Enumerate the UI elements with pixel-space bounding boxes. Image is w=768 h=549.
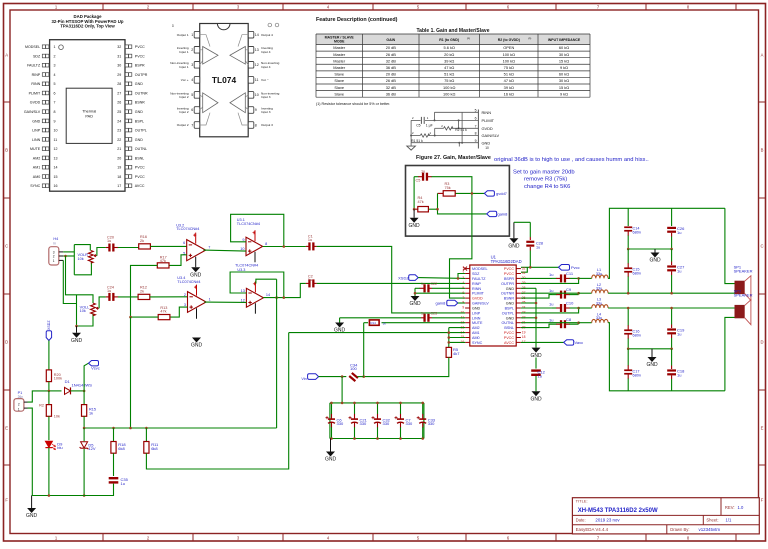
wire U3.1 output to C1 bbox=[263, 246, 306, 248]
net flag Vsvc bbox=[84, 363, 88, 391]
wire H4 pin2 down to VOLL bbox=[66, 256, 77, 295]
svg-text:GND: GND bbox=[71, 338, 83, 344]
svg-text:28: 28 bbox=[117, 82, 121, 86]
wire PLIMIT to GVDD (figure) bbox=[458, 120, 460, 128]
svg-text:26 dB: 26 dB bbox=[386, 78, 397, 83]
svg-text:Set to gain master 20db: Set to gain master 20db bbox=[513, 170, 575, 176]
svg-text:24: 24 bbox=[117, 119, 121, 123]
svg-text:23: 23 bbox=[117, 129, 121, 133]
svg-text:10k: 10k bbox=[80, 309, 86, 313]
svg-text:6k8: 6k8 bbox=[118, 446, 125, 451]
svg-text:XSDZ: XSDZ bbox=[398, 276, 409, 281]
svg-text:330: 330 bbox=[360, 421, 367, 426]
svg-text:BSNR: BSNR bbox=[135, 101, 145, 105]
wire C5 right to GVDD node bbox=[432, 177, 472, 236]
capacitor C28 bbox=[514, 221, 530, 223]
svg-text:14: 14 bbox=[255, 33, 259, 37]
bootstrap cap C10 bbox=[521, 307, 552, 309]
no-connect MODSEL bbox=[463, 267, 467, 271]
svg-text:Slave: Slave bbox=[334, 91, 344, 96]
svg-text:FAULTZ: FAULTZ bbox=[27, 64, 41, 68]
wire R18 to C35 bbox=[113, 453, 115, 476]
svg-text:GAIN/SLV: GAIN/SLV bbox=[472, 302, 489, 306]
main ground bbox=[27, 508, 36, 513]
svg-text:20 dB: 20 dB bbox=[386, 45, 397, 50]
svg-text:PLIMIT: PLIMIT bbox=[472, 292, 485, 296]
svg-text:12: 12 bbox=[255, 63, 259, 67]
resistor R2 (figure) bbox=[435, 127, 444, 129]
svg-text:gain8: gain8 bbox=[498, 212, 509, 217]
wire R20 to 26V node bbox=[48, 382, 50, 391]
svg-text:LINN: LINN bbox=[472, 316, 481, 320]
svg-text:E: E bbox=[5, 426, 8, 431]
svg-text:GND: GND bbox=[32, 119, 40, 123]
diode D1 1N4148WS bbox=[65, 387, 71, 394]
svg-text:PLIMIT: PLIMIT bbox=[29, 92, 41, 96]
svg-text:Drawn By:: Drawn By: bbox=[670, 527, 689, 532]
ground below C12 bbox=[532, 391, 541, 396]
svg-text:GVDD: GVDD bbox=[30, 101, 41, 105]
svg-text:36 dB: 36 dB bbox=[386, 91, 397, 96]
svg-text:2019 23 nov: 2019 23 nov bbox=[595, 518, 620, 523]
svg-text:C11: C11 bbox=[566, 271, 574, 276]
filter cap C14 680n bbox=[627, 208, 629, 226]
svg-text:Sheet:: Sheet: bbox=[706, 518, 718, 523]
svg-text:13: 13 bbox=[54, 156, 58, 160]
svg-text:XH-M543 TPA3116D2 2x50W: XH-M543 TPA3116D2 2x50W bbox=[578, 508, 658, 514]
svg-text:30 kΩ: 30 kΩ bbox=[559, 52, 569, 57]
svg-text:GND: GND bbox=[135, 82, 143, 86]
capacitor C1 bbox=[306, 245, 310, 247]
svg-text:Master: Master bbox=[333, 58, 346, 63]
net flag gain8 (box) bbox=[487, 211, 497, 216]
svg-text:BSNL: BSNL bbox=[504, 326, 514, 330]
svg-text:F: F bbox=[5, 498, 8, 503]
svg-text:LINP: LINP bbox=[32, 129, 41, 133]
svg-text:47 kΩ: 47 kΩ bbox=[444, 65, 454, 70]
ground LINN bbox=[335, 323, 344, 328]
svg-text:BSPR: BSPR bbox=[504, 277, 514, 281]
svg-text:Input 1: Input 1 bbox=[179, 50, 189, 54]
svg-text:GND: GND bbox=[409, 301, 421, 307]
capacitor C5 bbox=[414, 176, 418, 178]
svg-text:2: 2 bbox=[184, 293, 186, 297]
svg-text:Master: Master bbox=[333, 45, 346, 50]
svg-text:20: 20 bbox=[117, 156, 121, 160]
svg-text:51 kΩ: 51 kΩ bbox=[504, 72, 514, 77]
svg-text:Output 2: Output 2 bbox=[177, 123, 189, 127]
svg-text:Input 3: Input 3 bbox=[261, 95, 271, 99]
svg-text:Slave: Slave bbox=[334, 78, 344, 83]
svg-text:1u: 1u bbox=[549, 288, 553, 293]
svg-text:10: 10 bbox=[54, 129, 58, 133]
svg-text:AM2: AM2 bbox=[33, 156, 40, 160]
potentiometer VOLL 10k bbox=[76, 295, 78, 326]
svg-text:7: 7 bbox=[462, 296, 464, 300]
svg-text:LINP: LINP bbox=[472, 311, 481, 315]
capacitor C23 bbox=[340, 317, 421, 319]
svg-text:SPEAKER: SPEAKER bbox=[734, 292, 753, 297]
capacitor C35 1u bbox=[109, 477, 119, 479]
ground triangle (figure) bbox=[410, 143, 412, 146]
svg-text:Vᴄᴄ +: Vᴄᴄ + bbox=[181, 78, 189, 82]
filter cap C15 680n bbox=[627, 249, 629, 264]
wire R3-R4 junction bbox=[438, 193, 487, 214]
svg-text:Feature Description (continued: Feature Description (continued) bbox=[316, 17, 398, 23]
svg-text:1u: 1u bbox=[538, 373, 542, 378]
svg-text:TLC074CN#4: TLC074CN#4 bbox=[235, 264, 258, 268]
svg-text:Output 3: Output 3 bbox=[261, 123, 273, 127]
svg-text:E: E bbox=[761, 426, 764, 431]
svg-text:OUTPL: OUTPL bbox=[502, 311, 514, 315]
svg-text:33u: 33u bbox=[596, 316, 602, 320]
svg-text:Slave: Slave bbox=[334, 85, 344, 90]
resistor R20 100k bbox=[46, 370, 51, 382]
svg-text:PVCC: PVCC bbox=[504, 336, 515, 340]
svg-text:C9: C9 bbox=[566, 287, 572, 292]
svg-text:3: 3 bbox=[184, 303, 186, 307]
svg-text:2: 2 bbox=[53, 254, 55, 258]
resistor R18 6k8 bbox=[113, 428, 115, 442]
svg-text:20 kΩ: 20 kΩ bbox=[444, 52, 454, 57]
svg-text:(1) Resistor tolerance shoul: (1) Resistor tolerance should be 5% or b… bbox=[316, 102, 390, 106]
capacitor C24 bbox=[106, 296, 110, 298]
svg-text:GND: GND bbox=[506, 316, 515, 320]
svg-text:C23: C23 bbox=[431, 312, 438, 316]
wire PLIMIT bbox=[415, 292, 465, 294]
svg-text:4: 4 bbox=[191, 78, 193, 82]
resistor R16 2k bbox=[139, 244, 151, 249]
svg-text:AM1: AM1 bbox=[472, 331, 480, 335]
wire PVCC pins bbox=[521, 266, 559, 268]
svg-text:OPEN: OPEN bbox=[503, 45, 514, 50]
svg-text:2: 2 bbox=[18, 402, 20, 406]
bias rail horizontal bbox=[84, 427, 277, 429]
svg-text:C22: C22 bbox=[431, 282, 438, 286]
svg-text:PVCC: PVCC bbox=[135, 54, 145, 58]
svg-text:TLC074CN#4: TLC074CN#4 bbox=[177, 280, 200, 284]
wire speaker1 plus from rail bbox=[725, 208, 735, 283]
svg-text:12: 12 bbox=[54, 147, 58, 151]
svg-text:C5: C5 bbox=[416, 124, 420, 128]
wire H4 pin2 bbox=[63, 255, 74, 257]
svg-text:Output 4: Output 4 bbox=[261, 33, 273, 37]
svg-text:1u: 1u bbox=[677, 332, 681, 337]
wire U3.3 output bbox=[263, 283, 306, 297]
capacitor C2 bbox=[306, 282, 310, 284]
svg-text:1: 1 bbox=[53, 259, 55, 263]
capacitor bank rails bbox=[330, 402, 424, 404]
svg-text:31: 31 bbox=[522, 271, 526, 275]
svg-text:PVCC: PVCC bbox=[504, 267, 515, 271]
svg-text:v12345vtm: v12345vtm bbox=[699, 527, 721, 532]
svg-text:33u: 33u bbox=[596, 272, 602, 276]
svg-text:AM0: AM0 bbox=[472, 336, 480, 340]
svg-text:Vin: Vin bbox=[301, 377, 306, 381]
capacitor C20 bbox=[106, 247, 110, 249]
svg-text:8: 8 bbox=[475, 132, 477, 136]
wire GND row (figure) bbox=[411, 142, 478, 144]
svg-text:75k: 75k bbox=[445, 186, 451, 190]
svg-text:1u: 1u bbox=[421, 312, 425, 316]
wire H4 pin3 to VOLR bbox=[63, 251, 74, 253]
svg-text:15 kΩ: 15 kΩ bbox=[559, 85, 569, 90]
svg-text:6: 6 bbox=[54, 92, 56, 96]
svg-text:11: 11 bbox=[255, 78, 259, 82]
wire R16 to U3.2 bbox=[150, 245, 186, 247]
svg-text:R2: R2 bbox=[39, 404, 44, 408]
wire AM bias rail bbox=[448, 328, 450, 348]
svg-text:3: 3 bbox=[54, 64, 56, 68]
svg-text:680n: 680n bbox=[633, 272, 641, 276]
wire OUTNR to L2 bbox=[521, 292, 579, 294]
wire H4 pin1 down bbox=[63, 260, 76, 303]
svg-text:6: 6 bbox=[191, 108, 193, 112]
svg-text:9: 9 bbox=[54, 119, 56, 123]
svg-text:Table 1. Gain and Master/Slave: Table 1. Gain and Master/Slave bbox=[417, 28, 490, 34]
svg-text:1.0: 1.0 bbox=[738, 505, 744, 510]
ground top filter bbox=[651, 253, 660, 258]
svg-text:Date:: Date: bbox=[576, 518, 586, 523]
wire U3.2 out to U3.1 bbox=[203, 250, 246, 251]
wire 26V node to D1 bbox=[49, 390, 62, 392]
svg-text:Vavc: Vavc bbox=[575, 340, 584, 345]
svg-text:2: 2 bbox=[54, 54, 56, 58]
svg-text:PVCC: PVCC bbox=[135, 166, 145, 170]
svg-text:20 dB: 20 dB bbox=[386, 72, 397, 77]
svg-text:47k: 47k bbox=[160, 310, 166, 314]
svg-text:MUTE: MUTE bbox=[472, 321, 483, 325]
svg-text:25: 25 bbox=[117, 110, 121, 114]
wire D9 to ground rail bbox=[48, 448, 50, 496]
svg-text:14: 14 bbox=[266, 293, 270, 297]
svg-text:original 36dB is to high to us: original 36dB is to high to use , and ca… bbox=[494, 157, 649, 163]
svg-text:100 kΩ: 100 kΩ bbox=[503, 52, 516, 57]
svg-text:R2 (to GVDD): R2 (to GVDD) bbox=[498, 38, 520, 42]
capacitor C22 bbox=[415, 287, 420, 289]
main ground rail bbox=[48, 494, 51, 497]
svg-text:2: 2 bbox=[191, 48, 193, 52]
svg-text:330: 330 bbox=[406, 421, 413, 426]
svg-text:680n: 680n bbox=[633, 231, 641, 235]
svg-text:2k: 2k bbox=[140, 239, 144, 243]
svg-text:1u: 1u bbox=[121, 481, 125, 486]
svg-text:11: 11 bbox=[54, 138, 58, 142]
wire RINP from C2 bbox=[317, 282, 466, 284]
svg-text:680n: 680n bbox=[633, 334, 641, 338]
svg-text:C: C bbox=[760, 244, 763, 249]
svg-text:100 kΩ: 100 kΩ bbox=[503, 58, 516, 63]
svg-text:330: 330 bbox=[383, 421, 390, 426]
svg-text:330: 330 bbox=[428, 421, 435, 426]
bias rail right branch bbox=[276, 279, 278, 428]
svg-text:MUTE: MUTE bbox=[30, 147, 41, 151]
svg-text:PAD: PAD bbox=[85, 114, 93, 118]
svg-text:47k: 47k bbox=[160, 259, 166, 263]
wire OUTNL to L4 bbox=[521, 322, 579, 324]
wire SYNC bbox=[449, 341, 465, 343]
resistor R14 mute bbox=[364, 322, 368, 324]
U3.3 inner loop bbox=[256, 279, 277, 283]
ground (box) bbox=[413, 209, 415, 218]
svg-text:47k: 47k bbox=[418, 200, 424, 204]
svg-text:BSPL: BSPL bbox=[505, 307, 514, 311]
svg-text:GND: GND bbox=[191, 343, 203, 349]
wire R11 bottom to AM2 rail bbox=[146, 333, 288, 469]
svg-text:2k: 2k bbox=[140, 289, 144, 293]
svg-text:8: 8 bbox=[255, 123, 257, 127]
svg-text:26v: 26v bbox=[18, 395, 24, 399]
resistor R15 1k bbox=[82, 405, 87, 417]
svg-text:OUTPL: OUTPL bbox=[135, 129, 147, 133]
svg-text:Master: Master bbox=[333, 65, 346, 70]
svg-text:GND: GND bbox=[530, 397, 542, 403]
svg-text:33u: 33u bbox=[596, 301, 602, 305]
net flag Pvcc bbox=[559, 265, 570, 271]
svg-text:R1 (to GND): R1 (to GND) bbox=[439, 38, 459, 42]
svg-text:TPA3116D2DAD: TPA3116D2DAD bbox=[491, 259, 522, 264]
svg-text:100 kΩ: 100 kΩ bbox=[443, 85, 456, 90]
svg-text:OUTNL: OUTNL bbox=[502, 321, 515, 325]
svg-text:Output 1: Output 1 bbox=[177, 33, 189, 37]
svg-text:7: 7 bbox=[54, 101, 56, 105]
wire Vin to C34 bbox=[319, 376, 347, 378]
wire gvdd net to U1 bbox=[450, 236, 472, 298]
svg-text:18: 18 bbox=[522, 335, 526, 339]
wire R12 to U3.4 bbox=[150, 296, 188, 298]
svg-text:26 dB: 26 dB bbox=[386, 52, 397, 57]
svg-text:19: 19 bbox=[117, 166, 121, 170]
wire AM1 from bias divider bbox=[289, 332, 465, 334]
svg-text:SPEAKER: SPEAKER bbox=[734, 269, 753, 274]
svg-text:1k: 1k bbox=[383, 321, 387, 325]
svg-text:C8: C8 bbox=[566, 317, 572, 322]
ground cap bank bbox=[330, 439, 332, 452]
svg-text:1u: 1u bbox=[421, 170, 425, 174]
feedback resistor R13 47k bbox=[170, 307, 188, 317]
svg-text:1u: 1u bbox=[549, 272, 553, 277]
svg-text:BSPL: BSPL bbox=[135, 119, 144, 123]
svg-text:3: 3 bbox=[191, 63, 193, 67]
net flag Vavc bbox=[564, 340, 574, 345]
svg-text:26: 26 bbox=[117, 101, 121, 105]
svg-text:1u: 1u bbox=[549, 318, 553, 323]
zener D5 12V bbox=[83, 428, 85, 441]
svg-text:RINN: RINN bbox=[472, 287, 481, 291]
svg-text:change R4 to 5K6: change R4 to 5K6 bbox=[524, 184, 570, 190]
svg-text:PVCC: PVCC bbox=[135, 175, 145, 179]
svg-text:30: 30 bbox=[117, 64, 121, 68]
svg-text:Input 2: Input 2 bbox=[179, 110, 189, 114]
svg-text:C10: C10 bbox=[566, 301, 574, 306]
svg-text:gvdd7: gvdd7 bbox=[496, 191, 508, 196]
figure pin rail bbox=[477, 110, 479, 149]
electrolytic capacitor C21 330u bbox=[354, 403, 356, 414]
svg-text:32: 32 bbox=[117, 45, 121, 49]
filter cap C17 680n bbox=[627, 349, 629, 366]
svg-text:R2 51 k: R2 51 k bbox=[455, 128, 467, 132]
wire MUTE down bbox=[363, 323, 365, 377]
svg-text:1u: 1u bbox=[107, 239, 111, 243]
svg-text:(1): (1) bbox=[467, 38, 470, 40]
svg-text:1N4148WS: 1N4148WS bbox=[72, 383, 93, 388]
svg-text:B: B bbox=[761, 148, 764, 153]
svg-text:Input 3: Input 3 bbox=[261, 110, 271, 114]
svg-text:(1): (1) bbox=[529, 38, 532, 40]
svg-text:75 kΩ: 75 kΩ bbox=[504, 65, 514, 70]
svg-text:Input 4: Input 4 bbox=[261, 65, 271, 69]
svg-text:39 kΩ: 39 kΩ bbox=[444, 58, 454, 63]
svg-text:16: 16 bbox=[54, 184, 58, 188]
svg-text:OUTNR: OUTNR bbox=[135, 92, 148, 96]
svg-text:10: 10 bbox=[255, 93, 259, 97]
svg-text:GND: GND bbox=[135, 110, 143, 114]
wire AVCC flag bbox=[521, 341, 564, 343]
inductor L4 bbox=[592, 319, 608, 322]
svg-text:51 kΩ: 51 kΩ bbox=[444, 72, 454, 77]
svg-text:OUTPR: OUTPR bbox=[501, 282, 514, 286]
svg-text:GVDD: GVDD bbox=[472, 297, 483, 301]
svg-text:OUTNR: OUTNR bbox=[501, 292, 514, 296]
filter cap C16 680n bbox=[627, 308, 629, 326]
svg-text:D: D bbox=[760, 340, 763, 345]
electrolytic capacitor C7 330u bbox=[400, 403, 402, 414]
svg-text:Thermal: Thermal bbox=[82, 110, 96, 114]
svg-text:7: 7 bbox=[208, 246, 210, 250]
electrolytic capacitor C33 330u bbox=[422, 403, 424, 414]
svg-text:GAIN: GAIN bbox=[386, 38, 395, 42]
svg-text:INPUT IMPEDANCE: INPUT IMPEDANCE bbox=[548, 38, 581, 42]
svg-text:1u: 1u bbox=[308, 238, 312, 242]
resistor R2 10k bbox=[46, 405, 51, 417]
feedback resistor R17 47k bbox=[169, 255, 187, 266]
svg-text:15: 15 bbox=[54, 175, 58, 179]
svg-text:1: 1 bbox=[18, 407, 20, 411]
wire OUTPL bbox=[521, 308, 579, 313]
svg-text:MODE: MODE bbox=[334, 40, 345, 44]
svg-text:9: 9 bbox=[462, 306, 464, 310]
wire AM0 bbox=[449, 337, 465, 339]
wire L4 down to bottom rail bbox=[608, 323, 725, 391]
svg-text:B: B bbox=[5, 148, 8, 153]
svg-text:C5: C5 bbox=[416, 179, 421, 183]
svg-text:31: 31 bbox=[117, 54, 121, 58]
wire L1 up to filter rail bbox=[608, 208, 725, 278]
svg-text:1: 1 bbox=[191, 33, 193, 37]
svg-text:OUTPR: OUTPR bbox=[135, 73, 148, 77]
svg-text:7: 7 bbox=[191, 123, 193, 127]
svg-text:GND: GND bbox=[472, 307, 481, 311]
svg-text:32 dB: 32 dB bbox=[386, 58, 397, 63]
ground bottom filter bbox=[648, 357, 657, 362]
svg-text:GND: GND bbox=[506, 287, 515, 291]
svg-text:47 kΩ: 47 kΩ bbox=[504, 78, 514, 83]
svg-text:RINP: RINP bbox=[32, 73, 41, 77]
wire P1 pin1 to ground rail bbox=[28, 408, 33, 495]
wire LINN cap to ground bbox=[339, 318, 341, 323]
svg-text:GND: GND bbox=[135, 138, 143, 142]
inductor L2 bbox=[592, 290, 608, 293]
svg-text:30 kΩ: 30 kΩ bbox=[559, 78, 569, 83]
filter cap C27 1u bbox=[667, 265, 676, 267]
svg-text:60 kΩ: 60 kΩ bbox=[559, 72, 569, 77]
filter cap C19 1u bbox=[667, 328, 676, 330]
svg-text:R14: R14 bbox=[371, 321, 377, 325]
svg-text:Input 2: Input 2 bbox=[179, 95, 189, 99]
svg-text:1u: 1u bbox=[677, 230, 681, 235]
svg-text:TITLE:: TITLE: bbox=[576, 499, 588, 504]
wire P1 pin2 to rail bbox=[28, 391, 49, 402]
